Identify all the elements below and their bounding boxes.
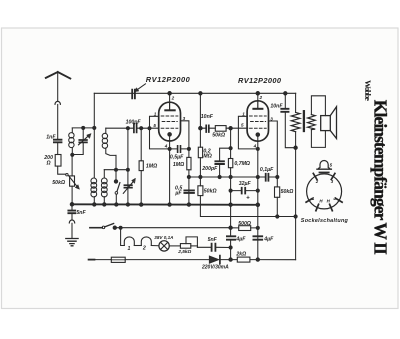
svg-text:3: 3: [183, 116, 186, 121]
svg-text:Ω: Ω: [46, 160, 51, 166]
wire 10nF2 lower: [285, 112, 295, 147]
node top wire feed: [199, 92, 202, 95]
node L1 bottom: [71, 153, 74, 156]
wire L1 bottom to potentiometer: [71, 155, 73, 176]
svg-text:50kΩ: 50kΩ: [281, 189, 294, 195]
capacitor 100pF: [134, 124, 137, 133]
node crossing coilwire: [115, 168, 118, 171]
wire heater drop leg: [121, 228, 125, 246]
svg-text:4µF: 4µF: [263, 237, 274, 243]
wire 0,2MΩ to node: [199, 158, 201, 186]
wire 0,7MΩ down: [230, 168, 232, 236]
inductor L1 antenna coil: [71, 128, 73, 133]
svg-text:Kleinstempfänger W II: Kleinstempfänger W II: [371, 100, 391, 255]
wire 2k to corner: [251, 259, 296, 261]
wire mains to fuse: [95, 259, 112, 261]
wire leak down: [140, 128, 142, 161]
socket top cap arch: [319, 160, 330, 168]
wire antenna down-lead: [57, 72, 59, 101]
wire leak to bus: [140, 171, 142, 205]
node 32µF right: [256, 189, 259, 192]
resistor 0,7MΩ: [228, 159, 232, 168]
capacitor 4µF second: [253, 236, 262, 239]
node wire176 left end: [187, 175, 190, 178]
node wire216 corner: [294, 215, 297, 218]
TEXT-LAYER: [43, 104, 293, 271]
node L3 bus: [93, 203, 96, 206]
loudspeaker LS: [321, 116, 331, 131]
wire left rail down from top line: [93, 93, 95, 177]
node bus rc: [187, 203, 190, 206]
wire common 176: [189, 176, 277, 178]
node bus L2sw: [115, 203, 118, 206]
variable capacitor C-tune1 arrow: [79, 136, 89, 145]
tube V2 RV12P2000 envelope: [247, 101, 268, 141]
inductor L3 left winding: [91, 178, 97, 184]
resistor 0,2MΩ: [198, 147, 202, 158]
capacitor 0,5µF cathode bypass: [184, 190, 194, 193]
svg-text:µF: µF: [174, 190, 182, 196]
variable capacitor C-tune2 plates: [124, 185, 131, 187]
heater winding 2: [141, 237, 151, 246]
svg-text:Sockelschaltung: Sockelschaltung: [301, 218, 349, 224]
capacitor 0,1µF: [266, 174, 269, 181]
resistor 50kΩ screen: [275, 187, 280, 197]
svg-text:5nF: 5nF: [76, 210, 86, 216]
wire switch to bus: [115, 194, 117, 204]
node transformer bottom: [294, 146, 297, 149]
node bus x230: [229, 203, 232, 206]
variable capacitor C-tune2 arrow: [123, 181, 133, 193]
wire hook to ground: [71, 223, 73, 238]
capacitor 1nF: [54, 140, 62, 143]
transformer core bar: [303, 111, 305, 131]
svg-text:50kΩ: 50kΩ: [212, 132, 225, 138]
svg-text:50kΩ: 50kΩ: [52, 180, 65, 186]
socket pin ticks: [306, 173, 342, 210]
wire V1 cathode down: [169, 136, 171, 205]
node bus right end: [256, 203, 260, 207]
node bus left end: [70, 203, 74, 207]
node switch right: [113, 226, 116, 229]
svg-text:1: 1: [242, 112, 245, 117]
node wire176 cathode2: [256, 175, 259, 178]
wire 5nF to hook: [71, 214, 73, 220]
svg-text:50kΩ: 50kΩ: [204, 188, 217, 194]
switch S2 contact: [102, 226, 105, 229]
wire tank cap branch upper: [82, 128, 84, 139]
node 5nF end: [229, 246, 232, 249]
resistor 1MΩ grid leak: [139, 161, 143, 171]
label arrow to trimmer: [138, 84, 146, 90]
wire V1 pin1 box: [150, 116, 170, 149]
wire 200pF branch top: [220, 148, 231, 160]
wire 1MΩ to node: [188, 170, 190, 205]
svg-text:5nF: 5nF: [208, 237, 218, 243]
svg-text:4: 4: [164, 144, 168, 149]
inductor L4 right winding: [103, 170, 105, 178]
node bus leak: [140, 203, 143, 206]
socket diagram circle: [307, 174, 342, 209]
main chassis bus: [72, 203, 258, 206]
node grid-coil junction: [126, 127, 129, 130]
wire hook to 1nF: [57, 105, 59, 140]
capacitor 10nF anode: [281, 109, 288, 112]
trimmer capacitor feedback: [132, 90, 135, 99]
capacitor 5nF: [68, 211, 75, 214]
node 200pF top: [229, 147, 232, 150]
inductor output transformer secondary: [308, 115, 316, 130]
wire shunt Z link: [186, 237, 197, 247]
wire cathode RC link: [170, 148, 189, 150]
svg-text:5: 5: [241, 122, 244, 127]
switch S2 mains wire: [90, 227, 102, 229]
node wire176 x200: [199, 175, 202, 178]
svg-text:500Ω: 500Ω: [238, 221, 251, 227]
node wire216 t: [276, 215, 279, 218]
wire L4 top link: [104, 169, 128, 171]
node RC junction: [187, 147, 190, 150]
switch S2 lever: [105, 224, 114, 227]
wire grid line tube1: [128, 127, 159, 129]
wire to tube2 grid: [226, 127, 248, 129]
wire heater to lamp: [151, 245, 159, 247]
capacitor 4µF first: [227, 236, 235, 239]
svg-text:32µF: 32µF: [239, 181, 252, 187]
node 10nF2 top: [284, 92, 287, 95]
wire 50k through bus to corner: [200, 196, 295, 217]
node heater drop: [119, 226, 122, 229]
ground: [66, 239, 78, 246]
wire V2 cathode down: [257, 136, 259, 260]
wire speaker loop top: [311, 96, 325, 116]
svg-text:Wobbe: Wobbe: [363, 80, 373, 101]
wire V1 pin3 out: [181, 121, 189, 149]
svg-text:2: 2: [142, 246, 146, 252]
capacitor 5nF smoothing: [212, 244, 216, 251]
svg-text:MΩ: MΩ: [203, 153, 211, 159]
wire 500Ω leads: [231, 227, 258, 229]
svg-text:2: 2: [259, 95, 263, 100]
switch S1 contact: [115, 192, 118, 195]
resistor 2,5kΩ: [180, 244, 190, 249]
wire L2 top to grid line: [106, 127, 128, 129]
lamp 38V 0,1A: [159, 241, 169, 251]
wire speaker loop bottom: [311, 130, 325, 148]
node V1 pin2 top: [168, 92, 172, 96]
wire 4µF1 down: [230, 240, 232, 260]
capacitor 0,5µF coupling: [178, 146, 181, 152]
heater winding 1: [124, 237, 134, 246]
svg-text:0,5µF: 0,5µF: [170, 155, 184, 161]
svg-text:2,5kΩ: 2,5kΩ: [177, 249, 191, 255]
node heater-500 junction: [229, 226, 232, 229]
capacitor 200pF: [215, 161, 224, 164]
wire 200pF to wire176: [219, 165, 221, 178]
wire 0,7MΩ rail: [230, 128, 232, 158]
wire right rail upper: [295, 93, 297, 112]
wire heater top line: [115, 227, 231, 229]
node bus cathode1: [168, 203, 171, 206]
node 10nF junction: [199, 126, 203, 130]
svg-text:10nF: 10nF: [270, 104, 283, 110]
V1 cathode: [168, 133, 172, 137]
ground plug hook: [69, 220, 74, 223]
antenna: [46, 72, 71, 79]
svg-text:1: 1: [154, 112, 157, 117]
node grid leak top: [140, 127, 143, 130]
node 0,7MΩ top: [229, 127, 232, 130]
svg-text:1nF: 1nF: [46, 134, 56, 140]
resistor 50kΩ lower: [198, 186, 203, 196]
wire V2 pin3 out: [269, 121, 278, 187]
svg-text:2: 2: [315, 179, 319, 184]
svg-text:+: +: [246, 195, 250, 201]
wire 10nF link: [200, 127, 215, 129]
wire V2 pin1 box: [238, 116, 257, 149]
capacitor 32µF: [242, 188, 246, 194]
node bus tune2: [126, 203, 129, 206]
fuse F1: [111, 257, 125, 262]
wire L2 bottom down to switch: [115, 155, 117, 181]
wire 1nF to R200: [57, 143, 59, 155]
potentiometer 50kΩ arrow: [68, 175, 77, 186]
switch S1 wave lever: [117, 183, 120, 192]
resistor 200Ω: [55, 155, 61, 167]
wire 10nF2 upper: [284, 93, 286, 108]
wire C-tune2 rail: [127, 128, 129, 204]
node pin3 wire176: [276, 175, 279, 178]
V1 anode plate: [169, 102, 171, 109]
resistor 2kΩ: [237, 257, 250, 262]
svg-text:38V 0,1A: 38V 0,1A: [154, 235, 173, 240]
svg-text:RV12P2000: RV12P2000: [238, 76, 282, 85]
wire top B+ line: [94, 92, 295, 94]
wire tank cap branch lower: [72, 143, 83, 155]
svg-text:0,7MΩ: 0,7MΩ: [234, 161, 250, 167]
svg-text:4: 4: [332, 196, 336, 201]
wire V2 anode pin2: [257, 93, 259, 101]
node 32µF left: [229, 189, 232, 192]
node rail x230: [229, 258, 232, 261]
node V2 cathode box: [256, 147, 259, 150]
svg-text:RV12P2000: RV12P2000: [146, 75, 191, 84]
V2 anode plate: [257, 101, 259, 108]
mains stub lower: [89, 259, 95, 261]
antenna plug hook: [55, 101, 60, 104]
V1 grid rows dashed: [161, 116, 178, 128]
wire down to 1MΩ: [188, 149, 190, 158]
node V1 cathode-RC: [168, 147, 171, 150]
inductor output transformer primary: [291, 112, 300, 131]
tap terminal circle: [66, 174, 68, 176]
wire diode to 2k: [220, 259, 237, 261]
wire between heaters: [134, 245, 141, 247]
wire feed rail down: [199, 93, 201, 147]
node rail x257: [256, 258, 259, 261]
svg-text:220V/30mA: 220V/30mA: [201, 265, 229, 271]
wire V1 anode pin2: [169, 93, 171, 102]
wire primary to rail node: [295, 132, 297, 148]
diode 220V/30mA: [209, 256, 219, 263]
wire to 5nF2: [197, 246, 230, 248]
svg-text:3: 3: [270, 116, 273, 121]
node 500 right: [256, 226, 259, 229]
svg-text:0,1µF: 0,1µF: [260, 167, 274, 173]
node link end: [126, 168, 129, 171]
svg-text:1: 1: [128, 246, 131, 252]
node L4 bus: [103, 203, 106, 206]
wire pot to bus: [71, 186, 73, 204]
resistor 50kΩ grid stopper: [215, 126, 226, 132]
node V2 pin2 top: [256, 92, 260, 96]
svg-text:2: 2: [171, 96, 175, 101]
wire L3 to bus: [93, 197, 95, 205]
svg-text:5: 5: [153, 123, 156, 128]
svg-text:10nF: 10nF: [201, 114, 214, 120]
svg-text:1MΩ: 1MΩ: [146, 164, 157, 170]
svg-text:100pF: 100pF: [126, 119, 142, 125]
svg-text:2kΩ: 2kΩ: [235, 252, 246, 258]
wire R200 to tap: [58, 166, 66, 174]
inductor L2 grid coil: [105, 128, 107, 133]
resistor 1MΩ anode RC: [187, 157, 191, 169]
node rail-tank junction: [93, 126, 96, 129]
node wire176 x230: [229, 175, 232, 178]
wire right rail lower: [295, 148, 297, 260]
node switch top: [114, 180, 117, 183]
tube V1 RV12P2000 envelope: [159, 102, 181, 141]
resistor 500Ω: [239, 226, 251, 231]
node tank top junction: [82, 126, 85, 129]
potentiometer 50kΩ body: [70, 176, 75, 186]
wire lamp to resistor: [169, 245, 180, 247]
variable capacitor C-tune1 plates: [79, 140, 87, 142]
capacitor 10nF coupling: [206, 125, 209, 132]
V2 cathode: [256, 133, 260, 137]
wire L1 top to rail: [72, 127, 94, 129]
svg-text:1MΩ: 1MΩ: [173, 162, 184, 168]
svg-text:4: 4: [253, 144, 257, 149]
socket top cap bars: [317, 168, 332, 170]
wire 32µF link: [231, 190, 258, 192]
wire fuse to diode: [125, 259, 209, 261]
wire screen resistor down: [276, 197, 278, 216]
node wire176 x219: [218, 175, 221, 178]
wire bus to 5nF: [71, 204, 73, 210]
V2 grid rows dashed: [250, 116, 267, 128]
svg-text:200pF: 200pF: [201, 166, 218, 172]
svg-text:4µF: 4µF: [235, 237, 246, 243]
wire resistor out: [191, 245, 198, 247]
node box-grid cross: [148, 127, 151, 130]
